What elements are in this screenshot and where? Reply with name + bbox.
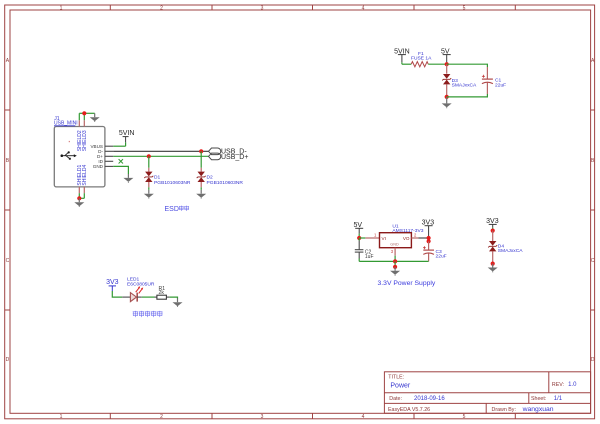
svg-text:D: D (591, 357, 595, 363)
svg-text:5: 5 (463, 5, 466, 11)
svg-text:2018-09-16: 2018-09-16 (414, 396, 445, 402)
svg-text:SHIELD3: SHIELD3 (82, 130, 88, 151)
svg-text:TITLE:: TITLE: (388, 375, 404, 381)
svg-text:C: C (6, 258, 10, 264)
svg-text:1/1: 1/1 (554, 396, 563, 402)
svg-text:1: 1 (60, 5, 63, 11)
svg-text:3: 3 (261, 414, 264, 420)
svg-text:PGB1010603NR: PGB1010603NR (207, 180, 244, 186)
svg-text:C: C (591, 258, 595, 264)
svg-text:1: 1 (60, 414, 63, 420)
svg-text:E6C0805UR: E6C0805UR (127, 281, 155, 287)
svg-text:wangxuan: wangxuan (522, 406, 554, 413)
svg-text:D1: D1 (154, 174, 161, 180)
svg-text:VO: VO (403, 236, 410, 241)
svg-text:2: 2 (160, 414, 163, 420)
svg-text:3V3: 3V3 (106, 279, 119, 286)
svg-text:D: D (6, 357, 10, 363)
svg-text:3: 3 (261, 5, 264, 11)
svg-text:1.0: 1.0 (568, 382, 577, 388)
svg-text:GND: GND (390, 243, 399, 247)
svg-text:PGB1010603NR: PGB1010603NR (154, 180, 191, 186)
svg-text:SMAJxxCA: SMAJxxCA (452, 83, 477, 89)
svg-text:2k: 2k (159, 290, 165, 296)
svg-text:Drawn By:: Drawn By: (492, 407, 516, 413)
svg-text:D2: D2 (207, 174, 214, 180)
svg-text:Power: Power (390, 383, 411, 390)
svg-text:4: 4 (362, 414, 365, 420)
svg-text:GND: GND (93, 164, 104, 169)
svg-text:SHIELD4: SHIELD4 (82, 165, 88, 186)
svg-text:ESD: ESD (165, 206, 179, 213)
svg-text:VI: VI (382, 236, 386, 241)
svg-text:USB_D+: USB_D+ (221, 154, 248, 161)
svg-text:AMS1117-3V3: AMS1117-3V3 (392, 228, 423, 234)
svg-text:FUSE 1A: FUSE 1A (411, 56, 432, 62)
svg-text:5: 5 (463, 414, 466, 420)
svg-text:22uF: 22uF (495, 82, 506, 88)
svg-text:EasyEDA V5.7.26: EasyEDA V5.7.26 (388, 407, 430, 413)
svg-text:SMAJxxCA: SMAJxxCA (498, 248, 523, 254)
svg-text:2: 2 (160, 5, 163, 11)
svg-text:3.3V Power Supply: 3.3V Power Supply (378, 280, 436, 287)
svg-text:4: 4 (362, 5, 365, 11)
svg-text:Date:: Date: (389, 396, 402, 402)
svg-text:22uF: 22uF (436, 253, 447, 259)
svg-text:Sheet:: Sheet: (531, 396, 546, 402)
svg-text:REV:: REV: (552, 382, 564, 388)
svg-text:1uF: 1uF (365, 254, 374, 260)
